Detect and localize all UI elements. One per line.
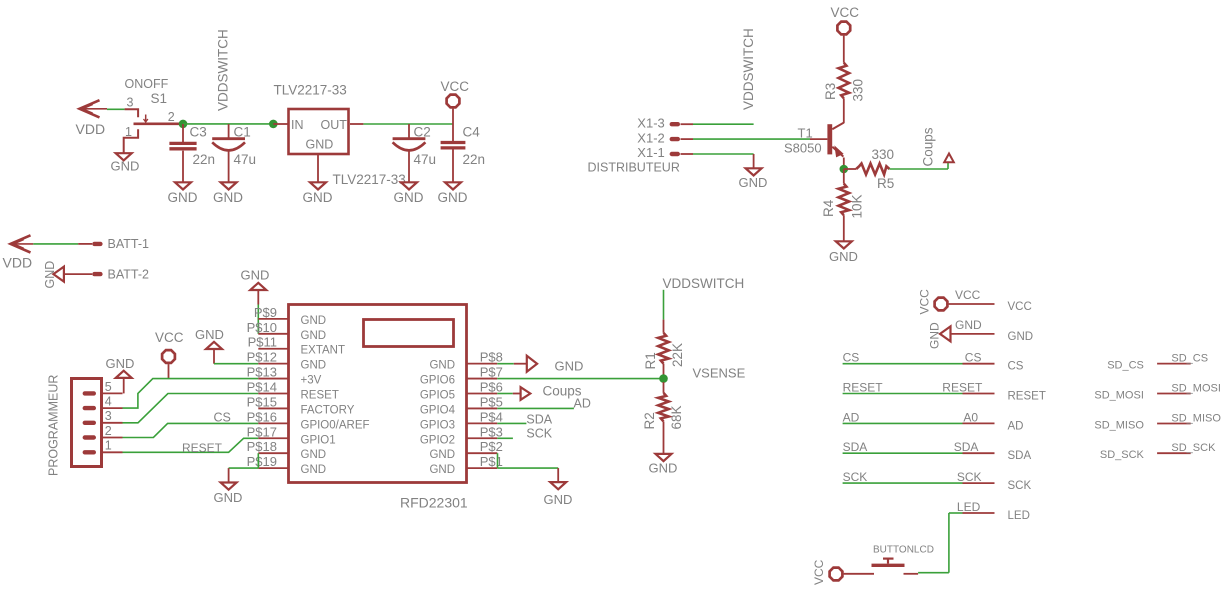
svg-text:SCK: SCK	[843, 470, 868, 484]
svg-text:22n: 22n	[193, 152, 216, 167]
svg-text:GND: GND	[394, 190, 424, 205]
svg-text:GND: GND	[429, 449, 455, 461]
svg-text:GND: GND	[214, 490, 243, 505]
svg-text:SD_MOSI: SD_MOSI	[1171, 383, 1221, 395]
svg-text:SDA: SDA	[843, 440, 868, 454]
svg-text:GND: GND	[955, 318, 982, 332]
svg-text:P$16: P$16	[247, 409, 277, 424]
svg-text:SD_SCK: SD_SCK	[1171, 442, 1216, 454]
svg-text:GND: GND	[928, 322, 942, 349]
svg-text:TLV2217-33: TLV2217-33	[333, 172, 406, 187]
svg-text:GPIO4: GPIO4	[420, 404, 456, 416]
svg-text:RESET: RESET	[301, 390, 339, 402]
svg-text:330: 330	[872, 147, 895, 162]
svg-text:1: 1	[105, 439, 112, 453]
svg-text:SCK: SCK	[526, 426, 552, 440]
svg-text:SD_MISO: SD_MISO	[1094, 419, 1144, 431]
svg-text:GND: GND	[301, 315, 327, 327]
svg-text:P$2: P$2	[480, 439, 503, 454]
svg-text:VCC: VCC	[812, 559, 826, 585]
svg-text:P$18: P$18	[247, 439, 277, 454]
svg-text:P$4: P$4	[480, 409, 503, 424]
svg-text:GND: GND	[213, 190, 243, 205]
svg-text:P$9: P$9	[254, 305, 277, 320]
svg-text:1: 1	[125, 125, 132, 139]
svg-text:P$1: P$1	[480, 454, 503, 469]
svg-text:SCK: SCK	[957, 470, 982, 484]
svg-text:22K: 22K	[670, 343, 685, 367]
svg-text:GPIO1: GPIO1	[301, 434, 336, 446]
svg-text:CS: CS	[214, 411, 231, 425]
svg-text:GND: GND	[429, 360, 455, 372]
svg-text:GND: GND	[555, 359, 584, 374]
svg-text:VDD: VDD	[3, 255, 33, 271]
svg-text:3: 3	[127, 96, 134, 110]
svg-text:SDA: SDA	[1008, 450, 1032, 462]
svg-text:GND: GND	[301, 360, 327, 372]
svg-text:BATT-2: BATT-2	[108, 267, 149, 281]
svg-text:SD_CS: SD_CS	[1171, 353, 1208, 365]
svg-text:AD: AD	[1008, 420, 1024, 432]
svg-text:2: 2	[105, 424, 112, 438]
svg-text:RFD22301: RFD22301	[400, 495, 468, 511]
svg-text:P$5: P$5	[480, 394, 503, 409]
svg-text:VDD: VDD	[76, 121, 106, 137]
svg-text:GND: GND	[168, 190, 198, 205]
svg-text:R3: R3	[823, 83, 838, 100]
svg-text:A0: A0	[963, 410, 978, 424]
svg-text:Coups: Coups	[920, 127, 935, 166]
svg-text:RESET: RESET	[182, 441, 223, 455]
svg-text:SD_CS: SD_CS	[1107, 359, 1144, 371]
svg-text:RESET: RESET	[843, 381, 884, 395]
svg-text:P$12: P$12	[247, 350, 277, 365]
svg-text:GND: GND	[429, 464, 455, 476]
svg-text:2: 2	[168, 110, 175, 124]
svg-text:47u: 47u	[234, 152, 257, 167]
svg-text:GND: GND	[649, 461, 678, 476]
svg-text:GPIO5: GPIO5	[420, 390, 455, 402]
svg-text:VCC: VCC	[918, 289, 932, 315]
svg-text:DISTRIBUTEUR: DISTRIBUTEUR	[588, 161, 680, 175]
svg-text:SCK: SCK	[1008, 480, 1032, 492]
svg-text:VDDSWITCH: VDDSWITCH	[741, 28, 756, 110]
svg-text:LED: LED	[1008, 510, 1030, 522]
svg-text:S1: S1	[151, 91, 168, 106]
svg-text:3: 3	[105, 409, 112, 423]
svg-text:BATT-1: BATT-1	[108, 237, 149, 251]
svg-text:TLV2217-33: TLV2217-33	[274, 83, 347, 98]
svg-text:R4: R4	[821, 199, 836, 217]
svg-text:GND: GND	[739, 175, 768, 190]
svg-text:AD: AD	[843, 410, 860, 424]
svg-text:BUTTONLCD: BUTTONLCD	[873, 545, 934, 556]
svg-text:GND: GND	[829, 249, 858, 264]
svg-text:GND: GND	[544, 492, 573, 507]
svg-text:GND: GND	[43, 261, 57, 289]
svg-text:P$15: P$15	[247, 394, 277, 409]
svg-text:GND: GND	[438, 190, 468, 205]
svg-text:68K: 68K	[669, 405, 684, 429]
svg-text:22n: 22n	[463, 152, 486, 167]
svg-text:LED: LED	[957, 500, 981, 514]
svg-text:RESET: RESET	[942, 381, 983, 395]
svg-text:IN: IN	[291, 118, 304, 132]
svg-text:GND: GND	[106, 356, 135, 371]
svg-text:CS: CS	[1008, 361, 1024, 373]
svg-text:S8050: S8050	[784, 141, 822, 156]
svg-text:C1: C1	[234, 125, 251, 140]
svg-text:P$7: P$7	[480, 365, 503, 380]
svg-text:P$11: P$11	[248, 335, 277, 350]
svg-text:GPIO3: GPIO3	[420, 419, 455, 431]
svg-text:P$8: P$8	[480, 350, 503, 365]
svg-text:FACTORY: FACTORY	[301, 404, 355, 416]
svg-text:GPIO6: GPIO6	[420, 375, 455, 387]
svg-text:R5: R5	[877, 176, 894, 191]
svg-text:T1: T1	[798, 126, 813, 141]
svg-text:GND: GND	[241, 267, 270, 282]
svg-text:X1-2: X1-2	[637, 130, 664, 145]
svg-text:C2: C2	[414, 125, 431, 140]
svg-text:AD: AD	[574, 397, 591, 411]
svg-text:P$17: P$17	[247, 424, 277, 439]
svg-text:C3: C3	[190, 125, 207, 140]
svg-text:VCC: VCC	[831, 5, 860, 20]
svg-text:GND: GND	[195, 327, 224, 342]
svg-text:5: 5	[105, 380, 112, 394]
svg-text:VCC: VCC	[441, 79, 470, 94]
svg-text:SD_MISO: SD_MISO	[1171, 413, 1221, 425]
svg-text:PROGRAMMEUR: PROGRAMMEUR	[47, 375, 61, 476]
svg-text:R2: R2	[642, 412, 657, 429]
svg-text:SDA: SDA	[526, 413, 552, 427]
svg-text:VCC: VCC	[1008, 301, 1032, 313]
svg-text:GPIO2: GPIO2	[420, 434, 455, 446]
svg-text:CS: CS	[965, 351, 982, 365]
svg-text:C4: C4	[463, 125, 481, 140]
svg-text:VDDSWITCH: VDDSWITCH	[663, 276, 745, 291]
svg-text:4: 4	[105, 395, 112, 409]
svg-text:VSENSE: VSENSE	[693, 366, 746, 381]
svg-text:GPIO0/AREF: GPIO0/AREF	[301, 419, 370, 431]
svg-text:GND: GND	[303, 190, 333, 205]
svg-text:VCC: VCC	[955, 288, 981, 302]
svg-text:SD_MOSI: SD_MOSI	[1094, 389, 1144, 401]
svg-text:CS: CS	[843, 351, 860, 365]
svg-text:EXTANT: EXTANT	[301, 345, 346, 357]
svg-text:R1: R1	[643, 352, 658, 369]
svg-text:GND: GND	[301, 464, 327, 476]
svg-text:P$14: P$14	[247, 380, 277, 395]
svg-text:RESET: RESET	[1008, 390, 1046, 402]
svg-text:P$10: P$10	[247, 320, 277, 335]
svg-text:+3V: +3V	[301, 375, 322, 387]
svg-text:X1-3: X1-3	[637, 115, 664, 130]
svg-text:P$6: P$6	[480, 380, 503, 395]
svg-text:GND: GND	[111, 159, 140, 174]
svg-text:OUT: OUT	[321, 118, 348, 132]
svg-text:GND: GND	[301, 330, 327, 342]
svg-text:47u: 47u	[414, 152, 437, 167]
svg-text:VCC: VCC	[155, 330, 184, 345]
svg-text:SDA: SDA	[954, 440, 979, 454]
svg-text:VDDSWITCH: VDDSWITCH	[216, 29, 231, 111]
svg-text:P$3: P$3	[480, 424, 503, 439]
svg-text:X1-1: X1-1	[637, 145, 664, 160]
svg-text:GND: GND	[1008, 331, 1034, 343]
svg-text:SD_SCK: SD_SCK	[1100, 449, 1145, 461]
svg-text:GND: GND	[306, 138, 334, 152]
svg-text:330: 330	[851, 79, 866, 102]
svg-text:P$19: P$19	[247, 454, 277, 469]
svg-text:P$13: P$13	[247, 365, 277, 380]
svg-text:10K: 10K	[850, 194, 865, 218]
svg-text:ONOFF: ONOFF	[125, 77, 169, 91]
svg-text:GND: GND	[301, 449, 327, 461]
